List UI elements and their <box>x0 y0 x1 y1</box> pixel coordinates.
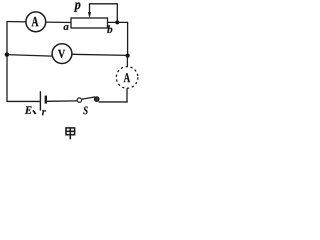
battery label E <box>25 106 32 113</box>
voltmeter V <box>52 44 72 64</box>
wire switch to battery <box>47 100 78 102</box>
dashed ammeter A2 <box>116 67 138 89</box>
wire battery left to corner <box>6 100 39 102</box>
node b junction dot <box>115 20 119 24</box>
wire top left horizontal <box>6 21 25 23</box>
rheostat slider arrow p <box>88 4 91 18</box>
wire dashed ammeter to bottom corner <box>126 88 128 102</box>
wire top right vertical down to b <box>116 3 118 22</box>
switch label S <box>83 106 87 114</box>
wire ammeter to rheostat <box>46 21 71 23</box>
wire right vertical upper <box>127 22 129 56</box>
wire left vertical to voltmeter <box>7 55 52 57</box>
ammeter A1 <box>26 12 46 32</box>
battery label r <box>42 110 46 115</box>
battery E,r <box>40 91 45 110</box>
wire voltmeter to right junction <box>72 54 127 55</box>
wire rheostat right to corner <box>108 21 128 23</box>
caption jia <box>65 128 75 139</box>
node junction dot left <box>5 52 9 56</box>
wire bottom right horizontal <box>99 101 128 103</box>
wire junction to dashed ammeter <box>126 56 128 67</box>
rheostat R body <box>71 18 108 28</box>
node a label <box>63 25 68 30</box>
slider label p <box>74 2 81 11</box>
wire left vertical <box>6 21 8 101</box>
label comma <box>33 110 36 114</box>
node b label <box>107 25 112 33</box>
node junction dot right <box>126 54 130 58</box>
wire slider to top <box>89 3 117 5</box>
switch S <box>77 97 99 102</box>
